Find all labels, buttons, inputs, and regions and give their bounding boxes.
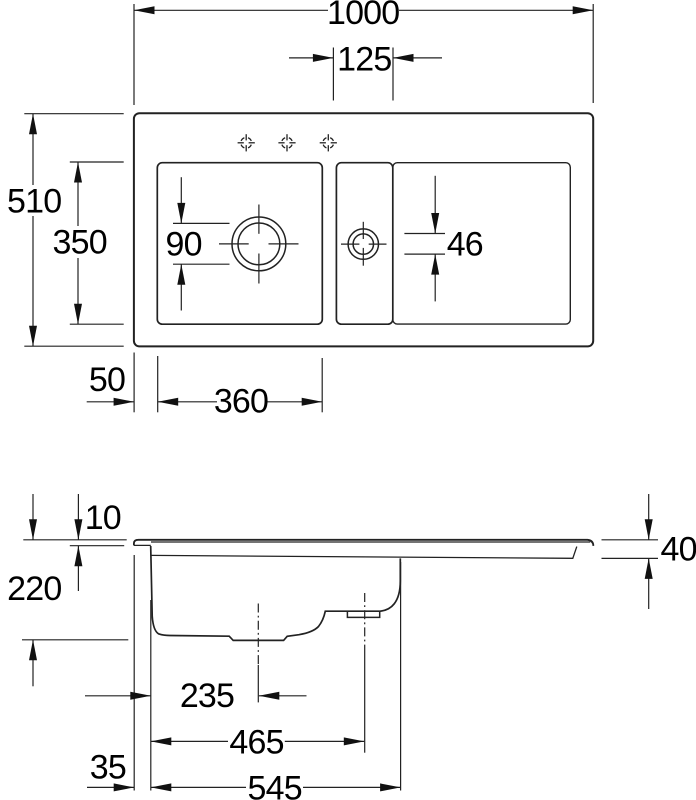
svg-text:35: 35 [90,749,126,787]
svg-text:545: 545 [248,770,302,800]
svg-text:510: 510 [7,183,61,221]
svg-text:360: 360 [214,383,268,421]
svg-text:125: 125 [337,41,391,79]
svg-text:465: 465 [229,724,283,762]
svg-text:46: 46 [447,225,483,263]
svg-text:40: 40 [660,531,696,569]
svg-text:50: 50 [89,361,125,399]
svg-text:220: 220 [7,570,61,608]
svg-text:90: 90 [165,225,201,263]
svg-text:235: 235 [180,677,234,715]
svg-text:10: 10 [85,499,121,537]
svg-text:350: 350 [53,224,107,262]
svg-text:1000: 1000 [327,0,399,32]
